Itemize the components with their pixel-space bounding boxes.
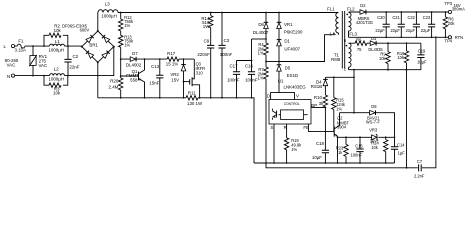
svg-text:3.15A: 3.15A bbox=[14, 48, 26, 53]
svg-text:1%: 1% bbox=[336, 107, 342, 112]
svg-text:10k: 10k bbox=[379, 56, 387, 61]
resistor R6 20k bbox=[443, 11, 455, 37]
node L2 right / C2 bottom bbox=[67, 75, 69, 77]
node N-RV1 bbox=[32, 75, 34, 77]
svg-text:FL3: FL3 bbox=[349, 32, 357, 37]
svg-text:CONTROL: CONTROL bbox=[284, 102, 300, 106]
svg-text:TP3: TP3 bbox=[445, 1, 453, 6]
svg-text:C19: C19 bbox=[418, 48, 426, 53]
node L1 left bbox=[43, 45, 45, 47]
svg-text:22µF: 22µF bbox=[421, 28, 431, 33]
capacitor C13 15nF bbox=[149, 58, 163, 98]
node VR2 / Q3 gate bbox=[183, 81, 185, 83]
wire C17/C16 top tie bbox=[237, 39, 252, 61]
resistor R9 10k bbox=[379, 42, 390, 69]
svg-text:D: D bbox=[267, 94, 270, 99]
transformer core bbox=[342, 11, 344, 69]
inductor L3 1000uH bbox=[98, 2, 118, 19]
wire L input bbox=[15, 45, 18, 47]
fuse F1 3.15A bbox=[14, 39, 26, 53]
svg-text:C20: C20 bbox=[377, 15, 385, 20]
svg-text:1W: 1W bbox=[203, 24, 210, 29]
zener VR2 15V bbox=[170, 58, 185, 98]
svg-text:C7: C7 bbox=[417, 159, 423, 164]
svg-text:1%: 1% bbox=[124, 23, 130, 28]
op-amp U1 controller box bbox=[269, 100, 311, 125]
resistor R12 750k 1% bbox=[119, 13, 135, 32]
resistor R20 2.4M bbox=[109, 59, 123, 98]
label 90-265 VAC bbox=[5, 58, 19, 68]
wire N line bbox=[15, 47, 114, 76]
svg-text:L1: L1 bbox=[55, 39, 60, 44]
svg-text:ES1D: ES1D bbox=[287, 73, 298, 78]
svg-text:R11: R11 bbox=[188, 90, 196, 95]
wire Q2 emitter to gnd bbox=[337, 137, 339, 163]
wire drain line from T1 pin1 bbox=[279, 35, 336, 62]
resistor R7 2M 1% bbox=[258, 62, 269, 164]
wire L line to bridge bbox=[25, 45, 82, 47]
wire FB pin to Q2 base bbox=[308, 124, 334, 131]
wire D4/R15 tie line bbox=[325, 76, 354, 78]
svg-text:1µF: 1µF bbox=[398, 151, 406, 156]
svg-text:D8: D8 bbox=[371, 104, 377, 109]
svg-text:100nF: 100nF bbox=[220, 52, 233, 57]
svg-text:1000µH: 1000µH bbox=[48, 47, 63, 52]
svg-text:VR1: VR1 bbox=[284, 22, 293, 27]
svg-text:WS-7-F: WS-7-F bbox=[366, 120, 381, 125]
svg-text:VR2: VR2 bbox=[170, 72, 179, 77]
diode D1 UF4007 bbox=[277, 39, 301, 62]
capacitor C23 22uF bbox=[421, 11, 435, 37]
capacitor C9 220nF bbox=[197, 28, 214, 98]
svg-text:FL2: FL2 bbox=[347, 7, 355, 12]
resistor R2 10k (parallel L1) bbox=[44, 24, 68, 46]
svg-text:15V: 15V bbox=[171, 78, 179, 83]
svg-text:TP4: TP4 bbox=[445, 39, 453, 44]
node drain clamp bbox=[278, 61, 280, 63]
svg-text:LNK403EG: LNK403EG bbox=[283, 84, 306, 89]
capacitor C16 100nF bbox=[245, 61, 258, 98]
svg-text:C18: C18 bbox=[316, 141, 325, 146]
label U1 LNK403EG bbox=[278, 78, 306, 89]
svg-text:D2: D2 bbox=[360, 3, 366, 8]
svg-text:U1: U1 bbox=[278, 78, 284, 83]
tvs VR1 P6KE200 bbox=[277, 13, 303, 40]
svg-text:1000µH: 1000µH bbox=[48, 77, 63, 82]
svg-text:100nF: 100nF bbox=[350, 153, 362, 158]
node Q1 base / R20 top bbox=[120, 75, 122, 77]
node L-RV1 bbox=[32, 45, 34, 47]
capacitor C21 22uF bbox=[390, 11, 404, 37]
svg-text:1%: 1% bbox=[258, 51, 264, 56]
svg-text:C23: C23 bbox=[423, 15, 431, 20]
wire BP pin bbox=[311, 107, 325, 109]
capacitor C18 10uF bbox=[312, 108, 329, 164]
svg-text:75: 75 bbox=[357, 47, 362, 52]
node BP/C18 bbox=[325, 107, 327, 109]
resistor R5 75 bbox=[355, 38, 367, 52]
transformer T1 RM8 primary FL1 bbox=[327, 7, 338, 35]
varistor RV1 275VAC bbox=[29, 46, 47, 76]
svg-text:10µF: 10µF bbox=[417, 60, 427, 65]
svg-text:R17: R17 bbox=[167, 51, 176, 56]
resistor R10 3k bbox=[314, 95, 328, 108]
svg-text:C3: C3 bbox=[224, 38, 230, 43]
node L3/R12 bbox=[120, 12, 122, 14]
svg-text:RS1B: RS1B bbox=[311, 84, 323, 89]
svg-text:BR1: BR1 bbox=[89, 42, 98, 47]
svg-text:C21: C21 bbox=[392, 15, 400, 20]
svg-text:600V: 600V bbox=[80, 28, 90, 33]
diode D5 ES1D bbox=[277, 62, 299, 93]
svg-text:VAC: VAC bbox=[7, 62, 16, 67]
svg-text:100nF: 100nF bbox=[227, 77, 240, 82]
wire primary dc- rail bbox=[98, 98, 254, 163]
svg-text:10µF: 10µF bbox=[312, 155, 322, 160]
resistor R24 10k bbox=[371, 136, 388, 163]
node R13/D7/R20 bbox=[120, 58, 122, 60]
svg-text:220nF: 220nF bbox=[197, 52, 210, 57]
node Q1 collector bbox=[144, 58, 146, 60]
wire BR1 top to L3 bbox=[97, 13, 99, 32]
svg-text:C15: C15 bbox=[355, 144, 363, 149]
capacitor C17 100nF bbox=[227, 61, 240, 98]
rail junction dots bbox=[120, 97, 122, 99]
svg-text:D3: D3 bbox=[371, 36, 377, 41]
svg-text:2.2nF: 2.2nF bbox=[414, 173, 425, 178]
svg-text:10k: 10k bbox=[397, 55, 405, 60]
capacitor C15 100nF bbox=[350, 136, 363, 163]
svg-text:C17: C17 bbox=[229, 64, 238, 69]
svg-text:D1: D1 bbox=[284, 39, 290, 44]
wire secondary output line bbox=[349, 11, 449, 13]
svg-text:1%: 1% bbox=[291, 147, 297, 152]
svg-text:558: 558 bbox=[130, 77, 138, 82]
svg-text:RTN: RTN bbox=[455, 35, 463, 40]
node rail/VR1 bbox=[278, 12, 280, 14]
wire bias return drop to gnd rail bbox=[406, 70, 408, 168]
svg-text:130 1W: 130 1W bbox=[187, 101, 203, 106]
wire FB network line bbox=[338, 136, 395, 138]
diode D3 DL4935 bbox=[368, 36, 383, 52]
wire R4/R7 to drain tie bbox=[266, 61, 279, 63]
svg-text:P6KE200: P6KE200 bbox=[284, 30, 303, 35]
zener VR3 36V bbox=[369, 127, 378, 143]
svg-text:22nF: 22nF bbox=[69, 65, 79, 70]
svg-text:C9: C9 bbox=[204, 39, 210, 44]
resistor R15 124k 1% bbox=[332, 77, 346, 131]
inductor L1 1000uH bbox=[48, 39, 64, 53]
svg-text:N: N bbox=[7, 74, 10, 79]
resistor R14 510 1W bbox=[201, 12, 213, 29]
wire D8 feed line bbox=[340, 113, 395, 138]
svg-text:S: S bbox=[270, 125, 273, 130]
mosfet Q3 IRFR310 bbox=[184, 59, 206, 98]
wire top rail bbox=[118, 12, 339, 14]
transformer secondary FL2 bbox=[346, 7, 355, 38]
svg-text:1000µH: 1000µH bbox=[101, 14, 116, 19]
svg-text:R5: R5 bbox=[356, 38, 362, 43]
diode D7 DL4002 bbox=[126, 51, 142, 68]
wire node A tie bbox=[252, 38, 267, 40]
svg-text:C2: C2 bbox=[72, 54, 78, 59]
resistor R13 750k 1% bbox=[119, 31, 135, 59]
capacitor C22 22uF bbox=[406, 11, 420, 37]
resistor R3 10k (parallel L2) bbox=[44, 76, 68, 96]
svg-text:R10: R10 bbox=[314, 95, 323, 100]
diode D8 BAV21 WS-7-F bbox=[366, 104, 381, 124]
wire bias return pin2 line bbox=[349, 69, 421, 71]
svg-text:FL1: FL1 bbox=[327, 7, 335, 12]
svg-text:C14: C14 bbox=[397, 142, 405, 147]
bridge rectifier BR1 DF06S-E3/45 600V bbox=[62, 23, 115, 63]
svg-text:22µF: 22µF bbox=[406, 28, 416, 33]
svg-text:D6: D6 bbox=[258, 22, 264, 27]
pin labels D V S R FB BP bbox=[267, 94, 317, 131]
capacitor C3 100nF bbox=[218, 12, 232, 98]
svg-text:C16: C16 bbox=[245, 64, 254, 69]
svg-text:10k: 10k bbox=[53, 91, 61, 96]
svg-text:10k: 10k bbox=[54, 28, 62, 33]
svg-text:L3: L3 bbox=[105, 2, 110, 7]
terminal N bbox=[7, 74, 15, 79]
svg-text:4201T3G: 4201T3G bbox=[356, 20, 373, 25]
svg-text:3k: 3k bbox=[319, 101, 324, 106]
svg-text:UF4007: UF4007 bbox=[284, 47, 300, 52]
wire D7 line bbox=[121, 58, 195, 60]
svg-text:C13: C13 bbox=[151, 64, 160, 69]
resistor R16 10k bbox=[397, 42, 409, 69]
diode D6 DL4007 bbox=[253, 13, 269, 44]
capacitor C14 1uF bbox=[391, 136, 405, 163]
node L2 left bbox=[43, 75, 45, 77]
svg-text:22µF: 22µF bbox=[375, 28, 385, 33]
svg-text:D7: D7 bbox=[132, 51, 138, 56]
resistor R17 15 1% bbox=[166, 51, 179, 67]
svg-text:15 1%: 15 1% bbox=[166, 62, 179, 67]
svg-text:V: V bbox=[296, 94, 299, 99]
terminal TP3 16V 380mA bbox=[445, 1, 466, 13]
svg-text:22µF: 22µF bbox=[390, 28, 400, 33]
svg-text:15nF: 15nF bbox=[149, 81, 159, 86]
svg-text:380mA: 380mA bbox=[452, 7, 465, 12]
resistor R11 130 1W (in rail) bbox=[186, 90, 203, 106]
svg-text:3904: 3904 bbox=[337, 125, 347, 130]
transformer bias winding FL3 bbox=[346, 32, 358, 70]
inductor L2 1000uH bbox=[48, 66, 64, 81]
wire D pin / V pin bbox=[271, 93, 295, 100]
svg-text:10k: 10k bbox=[371, 145, 379, 150]
node L1 right / C2 top bbox=[67, 45, 69, 47]
wire BR1 bottom to gnd rail bbox=[97, 62, 99, 98]
svg-text:1%: 1% bbox=[258, 76, 264, 81]
wire lower gnd rail with C7 bbox=[266, 37, 436, 168]
transistor Q2 MMBT3904 bbox=[334, 113, 349, 138]
resistor R4 2M 1% bbox=[258, 42, 269, 62]
transistor Q1 FMMT558 bbox=[121, 59, 145, 98]
terminal L bbox=[3, 44, 14, 49]
svg-text:L2: L2 bbox=[54, 66, 59, 71]
svg-text:F1: F1 bbox=[18, 39, 24, 44]
diode D2 MBRS4201T3G bbox=[356, 3, 373, 25]
diode D4 RS1B bbox=[311, 77, 328, 95]
wire bias line bbox=[349, 42, 421, 44]
wire S pin bbox=[273, 124, 275, 163]
resistor R19 49.9k 1% bbox=[284, 124, 302, 163]
capacitor C7 2.2nF bbox=[414, 159, 425, 178]
wire pin2 to V/D4 tie bbox=[353, 70, 355, 113]
svg-text:D5: D5 bbox=[285, 66, 291, 71]
capacitor C20 22uF bbox=[375, 11, 389, 37]
resistor R23 1k bbox=[336, 136, 348, 163]
svg-text:R20: R20 bbox=[110, 79, 119, 84]
capacitor C2 22nF bbox=[64, 46, 79, 76]
svg-text:VAC: VAC bbox=[38, 63, 47, 68]
svg-text:20k: 20k bbox=[448, 21, 456, 26]
svg-text:DL4007: DL4007 bbox=[253, 30, 269, 35]
svg-text:C22: C22 bbox=[407, 15, 415, 20]
svg-text:2.4M: 2.4M bbox=[109, 85, 119, 90]
svg-text:310: 310 bbox=[196, 70, 204, 75]
svg-text:VR3: VR3 bbox=[369, 127, 378, 132]
pin 1 label and polarity dot bbox=[329, 32, 334, 37]
capacitor C19 10uF bbox=[417, 43, 427, 69]
wire primary gnd S rail bbox=[254, 162, 395, 164]
wire RTN line bbox=[349, 36, 449, 38]
label T1 RM8 bbox=[331, 52, 341, 62]
terminal TP4 RTN bbox=[445, 35, 464, 44]
svg-text:RM8: RM8 bbox=[331, 57, 341, 62]
node rail/D6 bbox=[265, 12, 267, 14]
svg-text:100nF: 100nF bbox=[245, 77, 258, 82]
svg-text:1%: 1% bbox=[124, 43, 130, 48]
svg-text:DL4002: DL4002 bbox=[126, 63, 142, 68]
